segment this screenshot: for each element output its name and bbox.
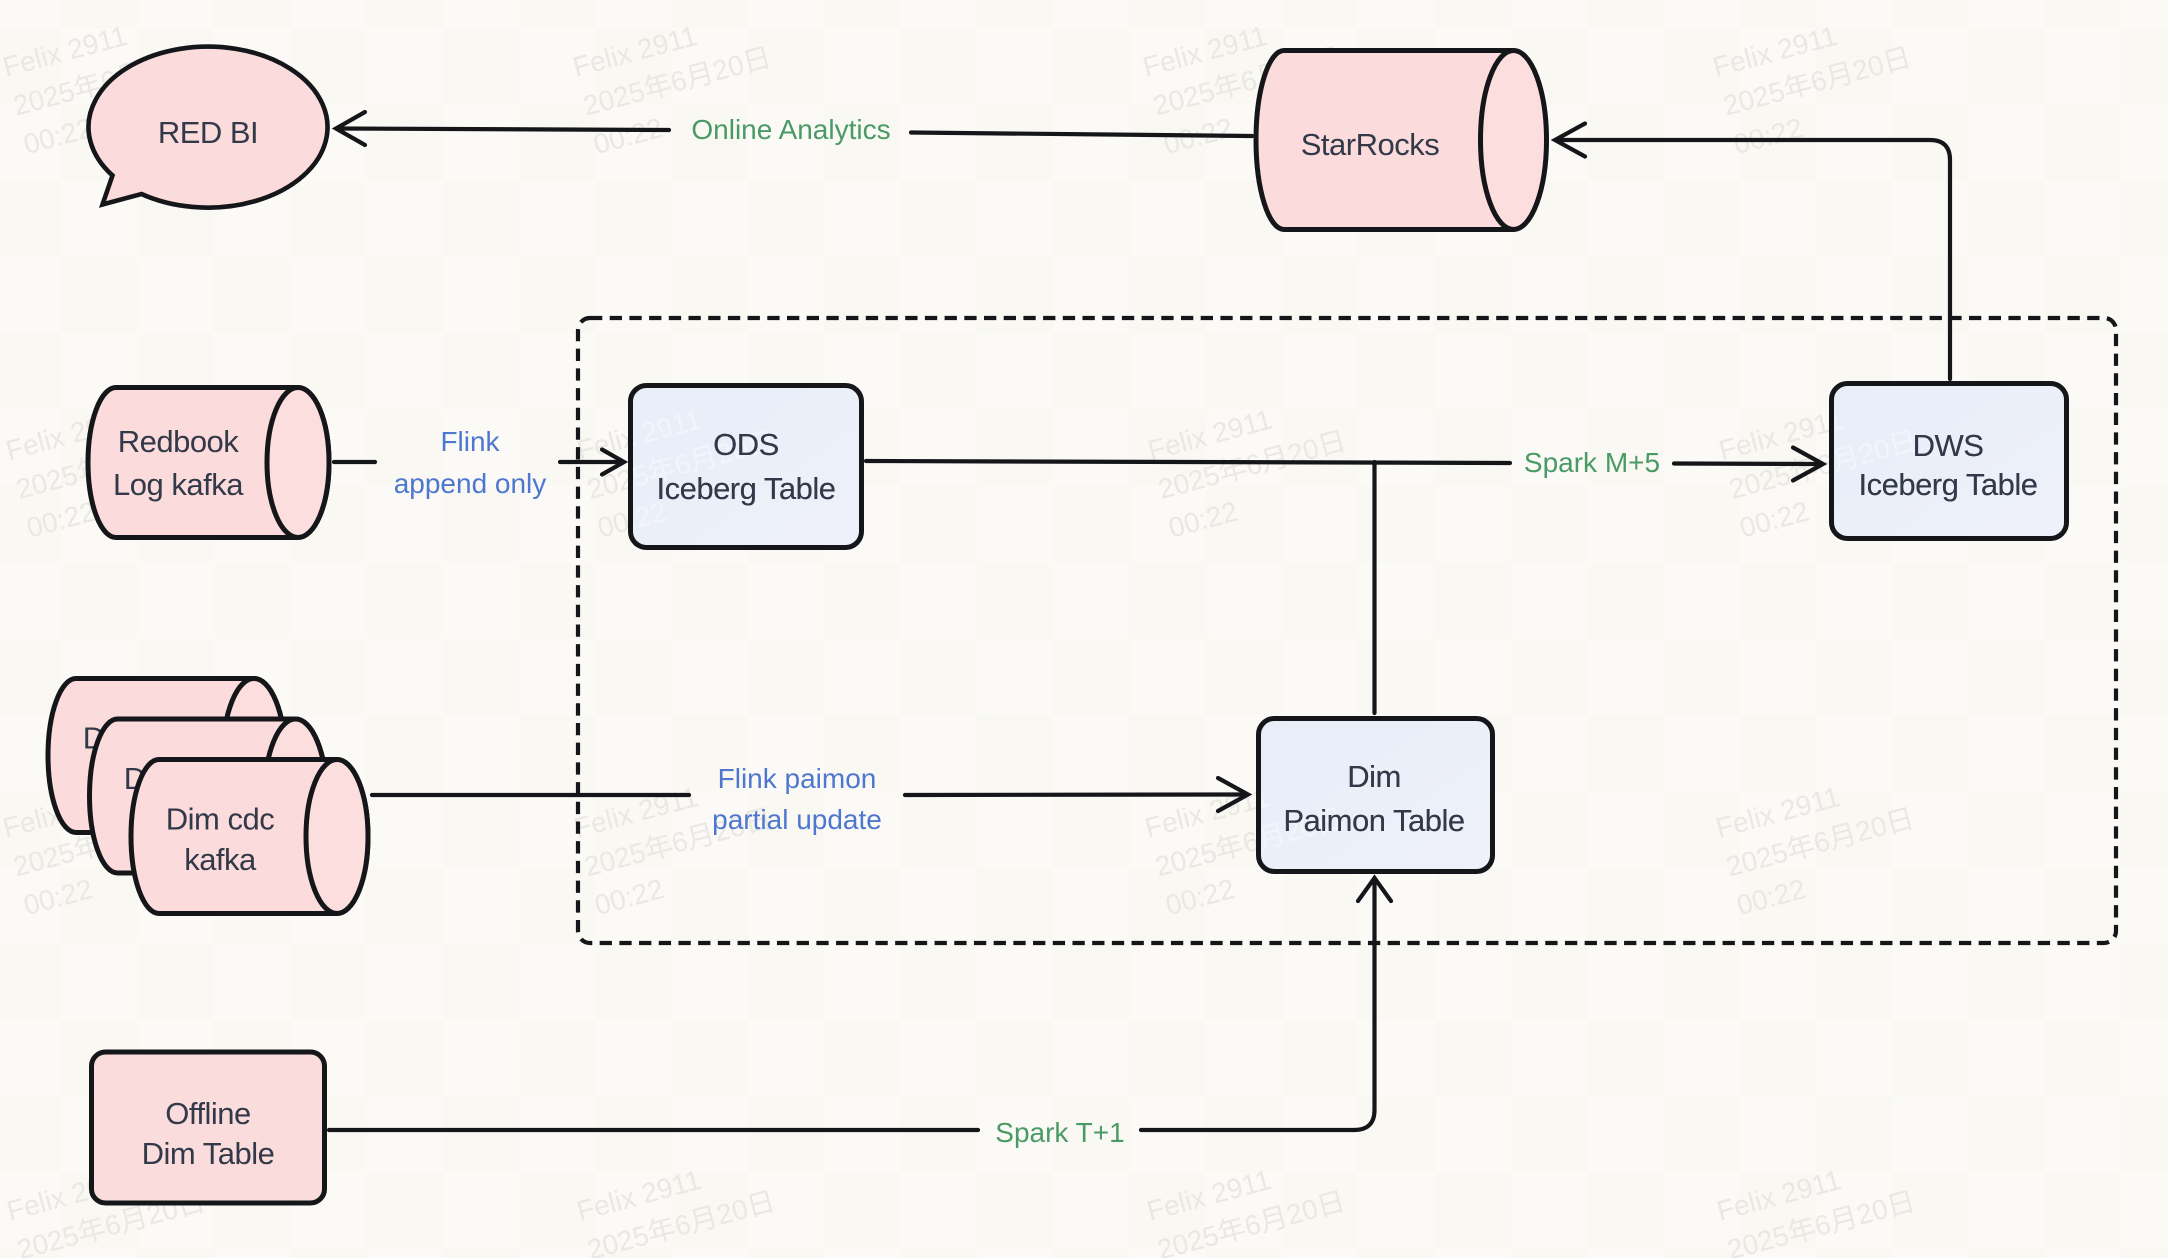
svg-text:Spark M+5: Spark M+5 xyxy=(1524,447,1660,478)
wire StarRocks to RED BI (right segment) xyxy=(911,133,1252,137)
svg-text:Online Analytics: Online Analytics xyxy=(691,114,890,145)
dashed container box xyxy=(578,318,2116,943)
node DWS Iceberg Table xyxy=(1832,384,2067,539)
svg-text:append only: append only xyxy=(394,468,547,499)
svg-text:RED BI: RED BI xyxy=(158,115,258,150)
wire Offline Dim Table to Spark T+1 label xyxy=(329,1128,978,1132)
svg-text:Log kafka: Log kafka xyxy=(113,467,244,502)
svg-text:partial update: partial update xyxy=(712,804,882,835)
wire Dim cdc kafka to Dim Paimon (left segment) xyxy=(372,793,689,797)
node Dim cdc kafka stacked cylinder 1 (back) xyxy=(48,679,285,833)
wire label-to-ODS segment with arrowhead xyxy=(560,460,622,464)
wire DWS to StarRocks elbow xyxy=(1556,140,1950,379)
wire junction down to Dim Paimon top xyxy=(1372,462,1376,713)
svg-text:Iceberg Table: Iceberg Table xyxy=(656,471,835,506)
node Dim cdc kafka stacked cylinder 2 (middle) xyxy=(90,719,327,873)
svg-text:Redbook: Redbook xyxy=(118,424,240,459)
svg-text:Dim cdc: Dim cdc xyxy=(166,802,274,837)
svg-text:Offline: Offline xyxy=(165,1096,251,1131)
svg-text:StarRocks: StarRocks xyxy=(1301,127,1439,162)
svg-text:Spark T+1: Spark T+1 xyxy=(995,1117,1124,1148)
svg-text:Iceberg Table: Iceberg Table xyxy=(1858,467,2037,502)
svg-text:Dim Table: Dim Table xyxy=(142,1136,275,1171)
svg-text:DWS: DWS xyxy=(1913,428,1984,463)
svg-text:Flink: Flink xyxy=(440,426,500,457)
wire ODS to DWS (left of label) xyxy=(866,461,1510,463)
node Redbook Log kafka cylinder xyxy=(88,388,329,538)
node labels redrawn over watermark xyxy=(656,427,2037,838)
node Dim cdc kafka stacked cylinder 3 (front) xyxy=(131,760,368,914)
svg-text:Flink paimon: Flink paimon xyxy=(718,763,877,794)
node RED BI speech bubble xyxy=(89,47,328,208)
node StarRocks cylinder xyxy=(1256,51,1546,230)
wire StarRocks to RED BI (left segment with arrowhead) xyxy=(329,112,1950,1130)
wire Dim cdc kafka to Dim Paimon (right segment) with arrowhead xyxy=(905,792,1245,797)
svg-text:Dim: Dim xyxy=(1347,759,1401,794)
node Offline Dim Table xyxy=(92,1052,325,1203)
node ODS Iceberg Table xyxy=(631,386,862,548)
node Dim Paimon Table xyxy=(1259,719,1493,872)
wire Redbook to ODS: stub xyxy=(334,460,375,464)
svg-text:Paimon Table: Paimon Table xyxy=(1283,803,1464,838)
svg-text:kafka: kafka xyxy=(184,842,257,877)
wire ODS to DWS (right of label) with arrowhead xyxy=(1674,461,1820,466)
wire Spark T+1 label to Dim Paimon bottom xyxy=(1141,880,1375,1130)
svg-text:ODS: ODS xyxy=(713,427,779,462)
